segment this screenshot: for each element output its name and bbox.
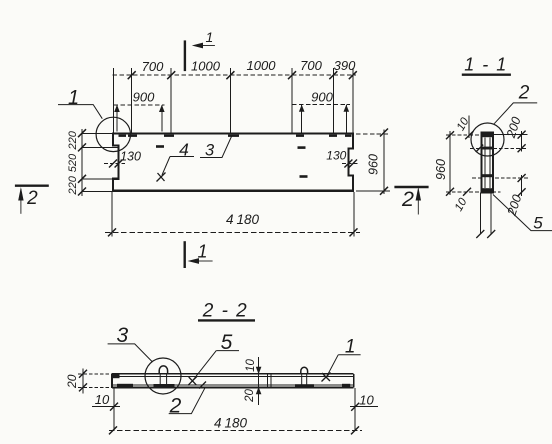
svg-text:520: 520 [67, 153, 79, 172]
svg-text:20: 20 [244, 389, 256, 403]
svg-text:2: 2 [518, 83, 530, 104]
svg-text:2: 2 [26, 188, 38, 209]
svg-text:900: 900 [311, 89, 333, 104]
svg-text:10: 10 [453, 196, 470, 214]
svg-text:4180: 4180 [226, 212, 260, 227]
svg-text:4: 4 [179, 139, 189, 159]
svg-text:5: 5 [221, 331, 233, 354]
svg-text:220: 220 [67, 130, 79, 150]
svg-text:2 - 2: 2 - 2 [202, 301, 249, 322]
svg-text:5: 5 [533, 213, 543, 232]
svg-text:390: 390 [334, 58, 356, 73]
svg-text:10: 10 [95, 392, 110, 407]
svg-text:2: 2 [401, 187, 414, 211]
svg-text:10: 10 [245, 359, 257, 372]
svg-text:200: 200 [504, 115, 524, 140]
svg-text:960: 960 [434, 159, 448, 180]
svg-text:20: 20 [65, 374, 79, 389]
svg-text:1000: 1000 [247, 58, 277, 73]
svg-text:1000: 1000 [191, 58, 221, 73]
svg-text:3: 3 [116, 324, 128, 347]
svg-text:1: 1 [197, 241, 207, 261]
svg-text:4180: 4180 [214, 416, 248, 431]
svg-text:10: 10 [359, 392, 374, 407]
svg-text:1: 1 [68, 87, 79, 109]
svg-text:3: 3 [205, 142, 215, 160]
svg-text:130: 130 [120, 150, 141, 164]
svg-text:130: 130 [326, 149, 346, 163]
svg-text:960: 960 [366, 154, 380, 175]
svg-text:700: 700 [300, 58, 322, 73]
svg-text:1: 1 [206, 29, 214, 45]
svg-text:1: 1 [345, 337, 356, 358]
svg-text:900: 900 [133, 89, 155, 104]
svg-text:220: 220 [67, 175, 79, 195]
svg-text:2: 2 [169, 394, 182, 417]
svg-text:1 - 1: 1 - 1 [464, 55, 508, 75]
svg-text:700: 700 [142, 59, 164, 74]
